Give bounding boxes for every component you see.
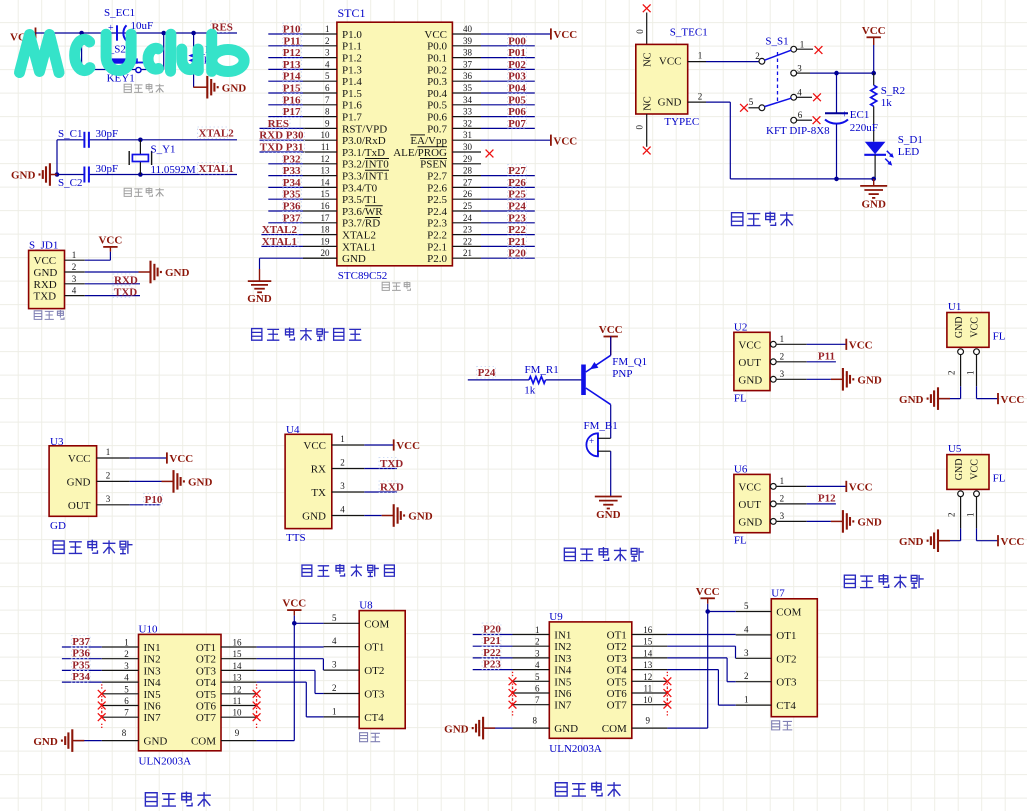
svg-text:11: 11 <box>233 696 242 706</box>
svg-text:4: 4 <box>797 88 802 98</box>
svg-text:P0.4: P0.4 <box>427 88 447 100</box>
svg-text:P27: P27 <box>508 165 526 177</box>
svg-text:+: + <box>842 108 848 120</box>
svg-text:10: 10 <box>233 708 243 718</box>
svg-text:+: + <box>589 436 594 446</box>
svg-text:10: 10 <box>643 695 653 705</box>
svg-text:3: 3 <box>72 274 77 284</box>
svg-text:OT5: OT5 <box>196 689 217 701</box>
svg-text:P23: P23 <box>508 212 526 224</box>
svg-text:U7: U7 <box>771 588 785 600</box>
svg-text:5: 5 <box>124 684 129 694</box>
svg-text:5: 5 <box>325 71 330 81</box>
svg-text:35: 35 <box>463 83 473 93</box>
svg-text:VCC: VCC <box>849 340 873 352</box>
svg-text:VCC: VCC <box>282 598 306 610</box>
svg-text:1: 1 <box>965 370 975 375</box>
svg-text:2: 2 <box>780 351 785 361</box>
svg-text:1: 1 <box>340 434 345 444</box>
svg-text:9: 9 <box>325 118 330 128</box>
svg-text:OT4: OT4 <box>196 677 217 689</box>
svg-text:6: 6 <box>535 684 540 694</box>
svg-text:RXD: RXD <box>380 482 404 494</box>
svg-text:P06: P06 <box>508 106 526 118</box>
svg-text:6: 6 <box>325 83 330 93</box>
svg-text:16: 16 <box>643 625 653 635</box>
svg-text:13: 13 <box>643 660 653 670</box>
svg-text:3: 3 <box>797 64 802 74</box>
svg-text:1: 1 <box>744 695 749 705</box>
svg-text:P16: P16 <box>283 94 301 106</box>
svg-text:P24: P24 <box>478 367 496 379</box>
svg-text:1k: 1k <box>524 385 536 397</box>
svg-text:TXD: TXD <box>380 458 403 470</box>
svg-text:STC89C52: STC89C52 <box>338 270 388 282</box>
svg-text:8: 8 <box>533 716 538 726</box>
svg-text:OUT: OUT <box>68 500 91 512</box>
svg-text:S_EC1: S_EC1 <box>104 7 135 19</box>
svg-text:P11: P11 <box>283 35 300 47</box>
svg-text:30pF: 30pF <box>96 163 119 175</box>
svg-text:GND: GND <box>188 477 213 489</box>
svg-text:P35: P35 <box>283 189 301 201</box>
svg-text:31: 31 <box>463 130 472 140</box>
svg-text:P0.3: P0.3 <box>427 76 447 88</box>
svg-text:OT5: OT5 <box>607 676 628 688</box>
svg-text:P1.2: P1.2 <box>342 53 362 65</box>
svg-text:GND: GND <box>247 293 272 305</box>
svg-text:3: 3 <box>535 648 540 658</box>
svg-text:37: 37 <box>463 59 473 69</box>
svg-text:GND: GND <box>34 267 58 279</box>
svg-text:1: 1 <box>698 51 703 61</box>
svg-text:VCC: VCC <box>1001 536 1025 548</box>
svg-text:COM: COM <box>364 618 389 630</box>
svg-text:NC: NC <box>643 52 654 67</box>
svg-text:1: 1 <box>800 40 805 50</box>
svg-text:0: 0 <box>635 29 645 34</box>
svg-text:2: 2 <box>332 683 337 693</box>
svg-text:19: 19 <box>321 236 331 246</box>
svg-text:P0.7: P0.7 <box>427 123 447 135</box>
svg-text:STC1: STC1 <box>338 6 366 20</box>
svg-text:1: 1 <box>72 250 77 260</box>
svg-text:11: 11 <box>321 142 330 152</box>
svg-text:RX: RX <box>311 464 326 476</box>
svg-text:8: 8 <box>325 107 330 117</box>
svg-text:P35: P35 <box>72 659 90 671</box>
svg-text:GND: GND <box>144 736 168 748</box>
svg-text:COM: COM <box>191 736 216 748</box>
svg-text:P05: P05 <box>508 94 526 106</box>
svg-text:GND: GND <box>861 198 886 210</box>
svg-text:IN1: IN1 <box>554 630 571 642</box>
svg-text:FM_B1: FM_B1 <box>584 420 618 432</box>
svg-text:2: 2 <box>340 458 345 468</box>
svg-text:OT1: OT1 <box>196 642 216 654</box>
svg-text:P22: P22 <box>483 647 501 659</box>
svg-text:VCC: VCC <box>68 453 91 465</box>
svg-text:P2.2: P2.2 <box>427 230 447 242</box>
svg-text:12: 12 <box>643 672 652 682</box>
svg-text:IN3: IN3 <box>144 665 162 677</box>
svg-text:XTAL1: XTAL1 <box>262 236 297 248</box>
svg-text:21: 21 <box>463 248 472 258</box>
svg-text:OT3: OT3 <box>196 665 217 677</box>
svg-text:GND: GND <box>738 374 762 386</box>
svg-text:GND: GND <box>954 459 965 481</box>
svg-text:XTAL1: XTAL1 <box>199 163 234 175</box>
svg-text:33: 33 <box>463 107 473 117</box>
svg-text:OUT: OUT <box>738 499 761 511</box>
svg-text:P1.6: P1.6 <box>342 100 362 112</box>
svg-text:P2.4: P2.4 <box>427 206 447 218</box>
svg-text:VCC: VCC <box>862 25 886 37</box>
svg-text:40: 40 <box>463 24 473 34</box>
svg-text:VCC: VCC <box>303 440 326 452</box>
svg-text:RES: RES <box>268 118 289 130</box>
svg-text:P13: P13 <box>283 59 301 71</box>
svg-text:GND: GND <box>342 253 366 265</box>
svg-text:FM_R1: FM_R1 <box>525 364 559 376</box>
svg-text:4: 4 <box>340 505 345 515</box>
svg-text:P2.6: P2.6 <box>427 182 447 194</box>
svg-text:GND: GND <box>954 316 965 338</box>
svg-text:32: 32 <box>463 118 472 128</box>
svg-text:34: 34 <box>463 95 473 105</box>
svg-text:P1.1: P1.1 <box>342 41 362 53</box>
svg-text:IN2: IN2 <box>144 654 161 666</box>
svg-text:P25: P25 <box>508 189 526 201</box>
svg-text:26: 26 <box>463 189 473 199</box>
svg-text:U8: U8 <box>359 599 373 611</box>
svg-text:FL: FL <box>734 392 747 404</box>
svg-text:XTAL2: XTAL2 <box>262 224 298 236</box>
svg-text:12: 12 <box>233 684 242 694</box>
svg-text:30: 30 <box>463 142 473 152</box>
svg-text:P26: P26 <box>508 177 526 189</box>
svg-text:ULN2003A: ULN2003A <box>139 755 192 767</box>
svg-text:2: 2 <box>124 649 129 659</box>
svg-text:OT3: OT3 <box>776 677 797 689</box>
svg-text:14: 14 <box>233 661 243 671</box>
svg-text:P17: P17 <box>283 106 301 118</box>
svg-text:P3.3/INT1: P3.3/INT1 <box>342 171 389 183</box>
svg-text:15: 15 <box>321 189 331 199</box>
svg-text:GD: GD <box>50 520 66 532</box>
svg-text:P01: P01 <box>508 47 526 59</box>
svg-text:17: 17 <box>321 213 331 223</box>
svg-text:S_TEC1: S_TEC1 <box>670 27 708 39</box>
svg-text:GND: GND <box>738 516 762 528</box>
svg-text:9: 9 <box>646 716 651 726</box>
svg-text:OT2: OT2 <box>364 665 384 677</box>
svg-text:VCC: VCC <box>553 29 577 41</box>
svg-text:P36: P36 <box>283 201 301 213</box>
svg-text:GND: GND <box>444 723 469 735</box>
svg-text:PSEN: PSEN <box>420 159 447 171</box>
svg-text:VCC: VCC <box>659 56 682 68</box>
svg-text:P0.0: P0.0 <box>427 41 447 53</box>
svg-text:39: 39 <box>463 36 473 46</box>
svg-text:2: 2 <box>535 637 540 647</box>
svg-text:P37: P37 <box>283 212 301 224</box>
svg-text:GND: GND <box>899 394 924 406</box>
svg-text:OT3: OT3 <box>364 689 385 701</box>
svg-text:5: 5 <box>749 97 754 107</box>
svg-text:GND: GND <box>596 509 621 521</box>
svg-text:XTAL2: XTAL2 <box>342 230 376 242</box>
svg-text:P1.7: P1.7 <box>342 112 362 124</box>
svg-text:LED: LED <box>898 146 919 158</box>
svg-text:COM: COM <box>602 723 627 735</box>
svg-text:OT2: OT2 <box>607 641 627 653</box>
svg-text:OT4: OT4 <box>607 665 628 677</box>
svg-text:TX: TX <box>311 487 326 499</box>
svg-text:VCC: VCC <box>696 586 720 598</box>
svg-text:OT7: OT7 <box>196 712 217 724</box>
svg-text:1: 1 <box>106 447 111 457</box>
svg-text:2: 2 <box>744 671 749 681</box>
svg-text:S_Y1: S_Y1 <box>151 144 176 156</box>
svg-text:P3.1/TxD: P3.1/TxD <box>342 147 385 159</box>
svg-text:P32: P32 <box>283 153 301 165</box>
svg-text:IN2: IN2 <box>554 641 571 653</box>
svg-text:P12: P12 <box>818 492 836 504</box>
svg-text:P3.4/T0: P3.4/T0 <box>342 182 378 194</box>
svg-text:IN3: IN3 <box>554 653 572 665</box>
svg-text:29: 29 <box>463 154 473 164</box>
svg-text:P21: P21 <box>508 236 526 248</box>
svg-text:3: 3 <box>124 661 129 671</box>
svg-text:P1.4: P1.4 <box>342 76 362 88</box>
svg-text:P20: P20 <box>483 624 501 636</box>
svg-text:EA/Vpp: EA/Vpp <box>410 135 447 147</box>
svg-text:IN4: IN4 <box>554 665 572 677</box>
svg-text:VCC: VCC <box>34 255 57 267</box>
svg-text:P07: P07 <box>508 118 526 130</box>
svg-text:2: 2 <box>698 92 703 102</box>
svg-text:TTS: TTS <box>286 532 306 544</box>
svg-text:OT6: OT6 <box>607 688 628 700</box>
svg-text:4: 4 <box>72 286 77 296</box>
svg-text:GND: GND <box>302 511 326 523</box>
svg-text:2: 2 <box>755 51 760 61</box>
svg-text:12: 12 <box>321 154 330 164</box>
svg-text:IN4: IN4 <box>144 677 162 689</box>
svg-text:P02: P02 <box>508 59 526 71</box>
svg-text:P37: P37 <box>72 636 90 648</box>
svg-text:GND: GND <box>408 511 433 523</box>
svg-text:P10: P10 <box>145 494 163 506</box>
svg-text:28: 28 <box>463 166 473 176</box>
svg-text:PNP: PNP <box>612 368 632 380</box>
svg-text:S_C1: S_C1 <box>58 128 82 140</box>
svg-text:4: 4 <box>535 660 540 670</box>
svg-text:22: 22 <box>463 236 472 246</box>
svg-text:OT1: OT1 <box>776 630 796 642</box>
svg-text:OT1: OT1 <box>607 630 627 642</box>
svg-text:8: 8 <box>122 728 127 738</box>
svg-text:36: 36 <box>463 71 473 81</box>
svg-text:S_C2: S_C2 <box>58 177 82 189</box>
svg-text:18: 18 <box>321 225 331 235</box>
svg-text:P33: P33 <box>283 165 301 177</box>
svg-text:2: 2 <box>780 493 785 503</box>
svg-text:TXD: TXD <box>114 286 137 298</box>
svg-text:2: 2 <box>946 370 956 375</box>
svg-text:3: 3 <box>744 648 749 658</box>
svg-text:16: 16 <box>321 201 331 211</box>
svg-text:OT2: OT2 <box>776 653 796 665</box>
svg-text:P0.2: P0.2 <box>427 64 447 76</box>
svg-text:XTAL1: XTAL1 <box>342 241 376 253</box>
svg-text:6: 6 <box>798 110 803 120</box>
svg-text:38: 38 <box>463 48 473 58</box>
svg-text:OT2: OT2 <box>196 654 216 666</box>
svg-text:10: 10 <box>321 130 331 140</box>
svg-text:27: 27 <box>463 177 473 187</box>
svg-text:24: 24 <box>463 213 473 223</box>
svg-text:P36: P36 <box>72 648 90 660</box>
svg-text:COM: COM <box>776 607 801 619</box>
svg-text:P10: P10 <box>283 24 301 36</box>
svg-text:P1.3: P1.3 <box>342 64 362 76</box>
svg-text:VCC: VCC <box>599 324 623 336</box>
svg-text:P3.0/RxD: P3.0/RxD <box>342 135 386 147</box>
svg-text:P34: P34 <box>283 177 301 189</box>
svg-text:VCC: VCC <box>738 481 761 493</box>
svg-text:OT3: OT3 <box>607 653 628 665</box>
svg-text:S_S1: S_S1 <box>765 36 788 48</box>
svg-text:P3.6/WR: P3.6/WR <box>342 206 383 218</box>
svg-text:GND: GND <box>222 82 247 94</box>
svg-text:P11: P11 <box>818 350 835 362</box>
svg-text:P2.3: P2.3 <box>427 218 447 230</box>
svg-text:1: 1 <box>780 476 785 486</box>
svg-text:IN5: IN5 <box>554 676 572 688</box>
svg-text:P22: P22 <box>508 224 526 236</box>
svg-text:P3.2/INT0: P3.2/INT0 <box>342 159 389 171</box>
svg-text:OUT: OUT <box>738 357 761 369</box>
svg-text:1: 1 <box>965 513 975 518</box>
svg-text:4: 4 <box>325 59 330 69</box>
svg-text:FL: FL <box>734 534 747 546</box>
svg-text:P15: P15 <box>283 83 301 95</box>
svg-text:P24: P24 <box>508 201 526 213</box>
svg-text:P20: P20 <box>508 248 526 260</box>
svg-text:1: 1 <box>780 334 785 344</box>
svg-text:GND: GND <box>857 375 882 387</box>
svg-text:IN6: IN6 <box>144 701 162 713</box>
svg-text:0: 0 <box>635 124 645 129</box>
svg-text:1: 1 <box>332 706 337 716</box>
svg-text:EC1: EC1 <box>850 109 870 121</box>
svg-text:14: 14 <box>643 648 653 658</box>
svg-text:S_D1: S_D1 <box>898 134 923 146</box>
svg-text:GND: GND <box>11 170 36 182</box>
svg-text:7: 7 <box>124 708 129 718</box>
svg-text:P1.5: P1.5 <box>342 88 362 100</box>
svg-text:15: 15 <box>233 649 243 659</box>
svg-text:2: 2 <box>106 470 111 480</box>
svg-text:RXD P30: RXD P30 <box>259 130 304 142</box>
svg-text:OT6: OT6 <box>196 701 217 713</box>
svg-text:11: 11 <box>643 684 652 694</box>
svg-text:4: 4 <box>124 673 129 683</box>
svg-text:KFT DIP-8X8: KFT DIP-8X8 <box>766 125 830 137</box>
svg-text:P00: P00 <box>508 35 526 47</box>
svg-text:TYPEC: TYPEC <box>664 116 699 128</box>
svg-text:VCC: VCC <box>738 339 761 351</box>
svg-text:U1: U1 <box>948 301 961 313</box>
svg-text:CT4: CT4 <box>364 712 384 724</box>
svg-text:16: 16 <box>233 638 243 648</box>
svg-text:IN7: IN7 <box>554 700 572 712</box>
svg-text:220uF: 220uF <box>850 122 878 134</box>
svg-text:VCC: VCC <box>970 317 981 338</box>
svg-text:IN6: IN6 <box>554 688 572 700</box>
svg-text:U5: U5 <box>948 443 962 455</box>
svg-text:GND: GND <box>165 267 190 279</box>
svg-text:OT1: OT1 <box>364 642 384 654</box>
svg-text:GND: GND <box>899 536 924 548</box>
svg-text:P0.6: P0.6 <box>427 112 447 124</box>
svg-text:15: 15 <box>643 637 653 647</box>
svg-text:GND: GND <box>554 723 578 735</box>
svg-text:P34: P34 <box>72 671 90 683</box>
svg-text:P0.5: P0.5 <box>427 100 447 112</box>
svg-text:P2.0: P2.0 <box>427 253 447 265</box>
svg-text:2: 2 <box>325 36 330 46</box>
svg-text:IN1: IN1 <box>144 642 161 654</box>
svg-text:4: 4 <box>332 636 337 646</box>
svg-text:9: 9 <box>235 728 240 738</box>
svg-text:13: 13 <box>233 673 243 683</box>
svg-text:14: 14 <box>321 177 331 187</box>
svg-text:7: 7 <box>325 95 330 105</box>
svg-text:20: 20 <box>321 248 331 258</box>
svg-text:4: 4 <box>744 624 749 634</box>
svg-text:IN5: IN5 <box>144 689 162 701</box>
svg-text:FL: FL <box>993 331 1006 343</box>
svg-text:TXD P31: TXD P31 <box>260 142 304 154</box>
svg-text:1k: 1k <box>881 97 893 109</box>
svg-text:VCC: VCC <box>553 135 577 147</box>
svg-text:P21: P21 <box>483 635 501 647</box>
svg-text:3: 3 <box>332 660 337 670</box>
svg-text:P1.0: P1.0 <box>342 29 362 41</box>
svg-text:P0.1: P0.1 <box>427 53 447 65</box>
svg-text:P2.1: P2.1 <box>427 241 447 253</box>
svg-text:CT4: CT4 <box>776 700 796 712</box>
svg-text:7: 7 <box>535 695 540 705</box>
svg-text:RST/VPD: RST/VPD <box>342 123 387 135</box>
svg-text:2: 2 <box>72 262 77 272</box>
svg-text:P03: P03 <box>508 71 526 83</box>
svg-text:FM_Q1: FM_Q1 <box>612 356 647 368</box>
svg-text:RXD: RXD <box>114 275 138 287</box>
svg-text:OT7: OT7 <box>607 700 628 712</box>
svg-text:RXD: RXD <box>34 279 57 291</box>
svg-text:VCC: VCC <box>424 29 447 41</box>
svg-text:P2.7: P2.7 <box>427 171 447 183</box>
svg-text:1: 1 <box>325 24 330 34</box>
svg-text:VCC: VCC <box>1001 394 1025 406</box>
svg-text:23: 23 <box>463 225 473 235</box>
svg-text:VCC: VCC <box>970 459 981 480</box>
svg-text:XTAL2: XTAL2 <box>199 128 235 140</box>
